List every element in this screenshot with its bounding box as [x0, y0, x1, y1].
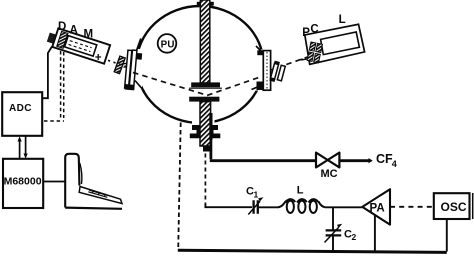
- bus arrow up ADC: [18, 136, 22, 159]
- laser assembly housing L: [305, 24, 365, 64]
- svg-text:PA: PA: [370, 203, 385, 215]
- laser beam path (dashed) inside chamber: [133, 73, 262, 96]
- beam exit line: [301, 59, 309, 60]
- bolt right port: [271, 68, 274, 71]
- wire gas line to valve: [210, 159, 316, 162]
- svg-text:OSC: OSC: [441, 200, 467, 214]
- wire to C1: [205, 204, 252, 207]
- gas inlet tube: [209, 137, 212, 159]
- vacuum chamber sphere: [124, 0, 272, 141]
- signal cable to ADC (dashed): [44, 51, 64, 121]
- label C1: [246, 186, 259, 200]
- wire M68000 to terminal: [43, 181, 65, 183]
- terminal (monitor and keyboard): [65, 154, 122, 209]
- wire C2 to ground bus: [332, 235, 334, 251]
- right port flange: [257, 50, 271, 90]
- stray edge mark: [472, 193, 474, 219]
- wire PA to OSC (dashed): [390, 206, 434, 208]
- svg-text:P: P: [302, 27, 310, 39]
- capacitor C1 (variable): [248, 197, 263, 214]
- svg-text:PU: PU: [161, 39, 175, 50]
- lower sample plate: [189, 97, 219, 102]
- wire C1 to L: [259, 206, 278, 208]
- bottom flange clamp left: [190, 125, 200, 138]
- svg-text:M68000: M68000: [4, 175, 42, 187]
- aperture cross mark: [95, 54, 101, 60]
- detector assembly D-A-M (photomultiplier): [46, 26, 110, 63]
- bus arrow down M68000: [24, 136, 28, 159]
- scattered light axis to detector (dotted): [103, 59, 127, 67]
- svg-text:MC: MC: [321, 168, 338, 180]
- wire ground bus: [178, 250, 447, 252]
- pickup PU label circle: [158, 34, 177, 53]
- upper sample plate: [189, 82, 222, 88]
- right port neck tube: [252, 46, 264, 90]
- left port flange: [124, 50, 143, 91]
- wire detector to ADC: [42, 47, 52, 99]
- laser body: [321, 32, 360, 55]
- capacitor C2 (variable): [325, 224, 343, 243]
- wire chamber ground return (dashed): [178, 123, 181, 250]
- svg-text:A: A: [70, 25, 78, 37]
- laser beam path window to laser (dashed): [286, 56, 309, 64]
- wire node to C2: [332, 207, 334, 230]
- svg-text:4: 4: [392, 159, 397, 169]
- inductor L: [278, 199, 326, 213]
- amplifier PA: [362, 189, 390, 224]
- computer M68000 box: [3, 159, 43, 208]
- svg-text:1: 1: [254, 190, 259, 200]
- wire valve to CF4 inlet: [339, 158, 372, 163]
- svg-text:L: L: [297, 185, 304, 197]
- label CF4: [376, 152, 397, 169]
- svg-text:L: L: [339, 14, 346, 26]
- svg-text:D: D: [58, 21, 66, 33]
- svg-text:C: C: [310, 23, 318, 35]
- svg-text:CF: CF: [376, 152, 393, 166]
- oscillator OSC: [434, 193, 470, 219]
- valve MC: [316, 153, 339, 168]
- wire OSC to ground bus: [446, 219, 448, 252]
- label C2: [344, 229, 357, 243]
- left port filter window: [114, 56, 125, 74]
- lower support rod (hatched): [200, 102, 213, 152]
- right port entrance window: [269, 61, 286, 84]
- left port neck tube: [135, 39, 145, 92]
- polarizer P and chopper C elements: [307, 42, 322, 63]
- sample support rod (upper, hatched): [197, 0, 214, 83]
- bottom flange clamp right: [210, 125, 220, 138]
- wire PA to ground bus: [374, 215, 376, 251]
- svg-text:ADC: ADC: [9, 103, 32, 114]
- ADC box: [2, 92, 42, 136]
- svg-text:M: M: [84, 29, 94, 41]
- wire L to PA: [325, 206, 362, 208]
- wire electrode feed (dashed): [204, 147, 206, 205]
- svg-text:2: 2: [352, 232, 357, 242]
